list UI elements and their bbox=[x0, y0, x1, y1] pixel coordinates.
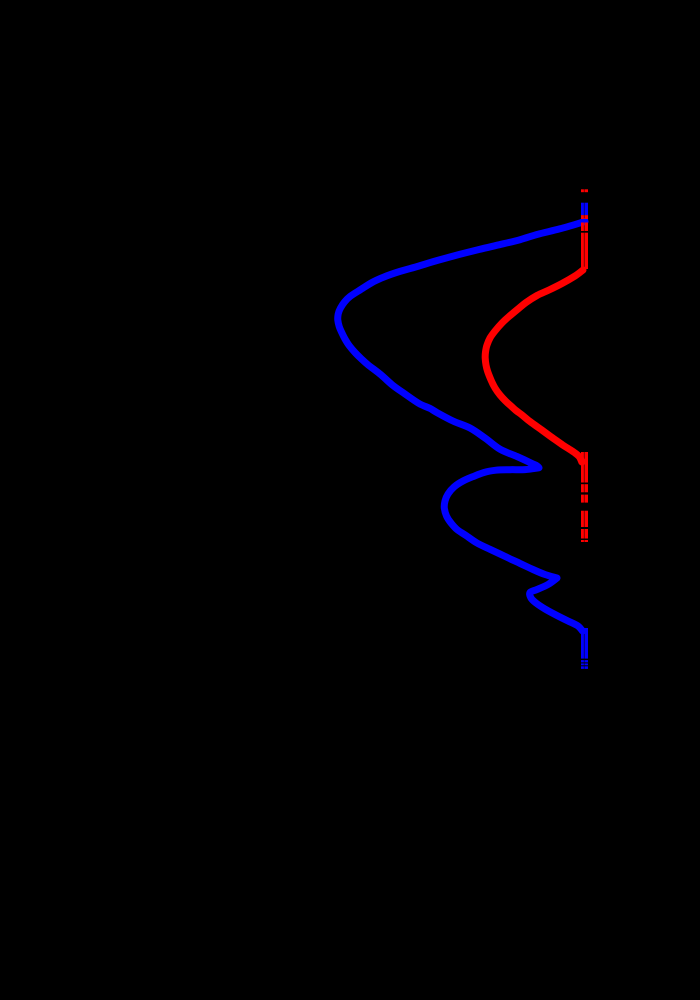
top vertical red strand segments bbox=[582, 215, 586, 269]
top vertical red dash pair bbox=[582, 189, 586, 192]
bottom vertical blue dashed strands bbox=[582, 628, 586, 669]
top vertical blue strand segments bbox=[582, 203, 586, 223]
middle vertical red dashed strands bbox=[582, 452, 586, 542]
blue periodic-orbit branch curve bbox=[338, 222, 585, 632]
red equilibrium branch curve bbox=[485, 270, 583, 462]
